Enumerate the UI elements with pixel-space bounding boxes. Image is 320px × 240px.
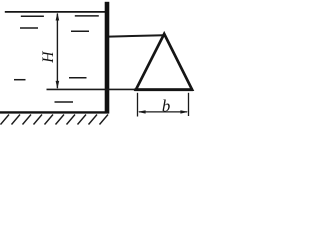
water dash row3 left <box>14 79 26 81</box>
water dash row1 right <box>75 15 99 17</box>
ground hatch 10 <box>100 115 109 125</box>
ground hatch 1 <box>1 115 10 125</box>
H dimension line <box>56 14 58 89</box>
wall (thick vertical bar) <box>105 2 110 114</box>
extension line left <box>137 93 139 117</box>
ground hatch 7 <box>67 115 76 125</box>
triangle base overdraw <box>135 88 194 91</box>
svg-text:H: H <box>40 51 57 64</box>
water dash row1 left <box>21 15 44 17</box>
ground hatch 9 <box>89 115 98 125</box>
water dash row3 right <box>69 77 87 79</box>
b dimension arrowhead left <box>138 110 146 113</box>
ground line <box>0 111 109 113</box>
b dimension line <box>139 111 187 113</box>
ground hatch 6 <box>56 115 65 125</box>
ground hatch 8 <box>78 115 87 125</box>
ground hatch 5 <box>45 115 54 125</box>
water dash below bottom <box>55 101 74 103</box>
ground hatch 2 <box>12 115 21 125</box>
tank bottom level line <box>47 88 137 90</box>
H dimension arrowhead down <box>56 81 60 89</box>
line wall to triangle apex <box>109 35 164 36</box>
ground hatch 4 <box>34 115 43 125</box>
H dimension arrowhead up <box>56 13 60 21</box>
b dimension arrowhead right <box>180 110 188 113</box>
water dash row2 right <box>71 30 89 32</box>
water dash row2 left <box>20 27 38 29</box>
water surface line <box>5 11 105 13</box>
svg-text:b: b <box>162 97 170 116</box>
ground hatch 3 <box>23 115 32 125</box>
extension line right <box>188 93 190 116</box>
triangle <box>136 34 192 90</box>
